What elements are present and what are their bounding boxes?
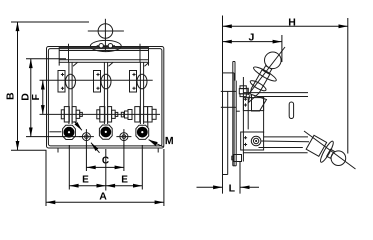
plate stub line	[221, 90, 236, 92]
top bushing circle	[88, 19, 124, 52]
dimension A	[46, 191, 164, 203]
dimension D	[19, 59, 31, 137]
svg-text:B: B	[4, 92, 16, 100]
dim D extension top	[26, 58, 66, 60]
upper terminal bolt	[239, 86, 248, 97]
pole centre row line	[40, 79, 153, 81]
svg-text:A: A	[99, 191, 107, 203]
slot hole	[289, 102, 293, 119]
frame foot stub right	[157, 148, 159, 153]
pole 2	[94, 62, 112, 124]
beam gusset 2	[109, 62, 114, 66]
dim C extensions	[85, 144, 87, 171]
dimension E left	[69, 174, 106, 185]
terminal 3	[136, 125, 149, 139]
beam gusset 3	[145, 62, 150, 66]
mounting hole 2	[116, 129, 131, 144]
dim L extension	[239, 161, 241, 194]
dimension L	[197, 183, 260, 195]
main column	[243, 77, 263, 162]
dimension H	[223, 16, 348, 28]
bolt row line	[40, 113, 161, 115]
hole leader arrows	[75, 122, 100, 153]
dim D extension bottom	[26, 136, 82, 138]
upper bracket	[243, 95, 266, 112]
lower plate bolt	[232, 155, 242, 162]
svg-text:F: F	[30, 94, 42, 101]
terminal 1	[63, 125, 76, 139]
dim J extension	[281, 35, 283, 62]
svg-text:M: M	[165, 135, 174, 147]
terminal row stub	[49, 131, 61, 133]
dimension B	[4, 22, 17, 150]
tank inner box	[48, 49, 161, 146]
dimension C	[86, 156, 124, 168]
mounting plate	[221, 62, 240, 194]
mounting hole 1	[79, 129, 94, 144]
bolt cluster pole 1	[61, 107, 82, 122]
dim H extensions	[222, 16, 224, 73]
svg-text:H: H	[288, 16, 296, 28]
dimension E right	[106, 174, 143, 185]
beam end stub right	[148, 62, 150, 65]
bolt cluster pole 2	[97, 107, 118, 122]
lower bracket	[241, 132, 264, 150]
svg-text:J: J	[248, 31, 254, 43]
upper insulator	[237, 47, 285, 109]
svg-text:E: E	[82, 174, 89, 185]
svg-text:E: E	[121, 174, 128, 185]
terminal 2	[99, 125, 112, 139]
frame foot stub left	[57, 148, 59, 153]
svg-text:L: L	[229, 183, 236, 195]
dim B extension bottom	[11, 149, 47, 151]
beam end stub left	[58, 62, 60, 65]
top bushing ellipse	[90, 40, 121, 51]
dim E extensions	[68, 145, 70, 190]
lower insulator	[304, 131, 356, 169]
top beam	[59, 44, 148, 63]
dim B extension top	[11, 21, 89, 23]
tank outer box	[47, 47, 164, 149]
body bottom edge	[243, 152, 307, 154]
frame corner chamfer	[150, 140, 157, 146]
dimension J	[223, 31, 282, 43]
pole 1	[58, 62, 76, 124]
dim A extensions	[45, 151, 47, 207]
pole 3	[130, 62, 148, 124]
dimension F	[30, 80, 43, 114]
label M leader	[149, 135, 174, 147]
body top edge	[243, 92, 308, 94]
bolt cluster pole 3	[121, 107, 156, 128]
beam gusset 1	[73, 62, 78, 66]
lower arm	[259, 137, 310, 148]
